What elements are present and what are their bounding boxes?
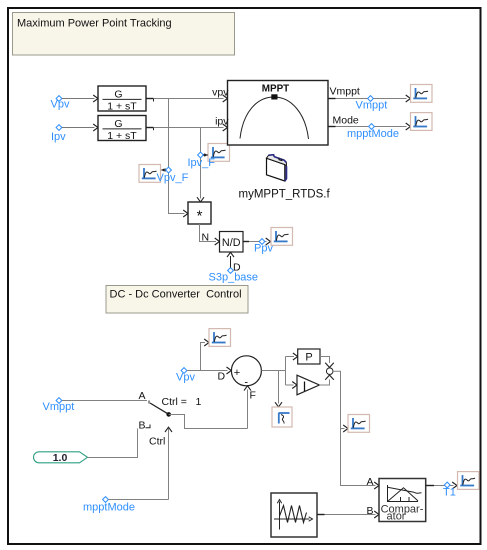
svg-text:Vpv: Vpv (176, 371, 195, 383)
node Vpv (lower) (176, 368, 195, 384)
wire I out to merge (319, 380, 329, 386)
monitor T1 (458, 472, 480, 490)
svg-text:myMPPT_RTDS.f: myMPPT_RTDS.f (239, 189, 331, 201)
svg-text:mpptMode: mpptMode (83, 501, 135, 513)
MPPT block U1 (212, 81, 360, 146)
node T1 (443, 482, 456, 499)
wire G2 to MPPT (ipv) (146, 124, 228, 131)
node Vmppt (356, 96, 388, 112)
svg-text:*: * (197, 208, 203, 225)
svg-text:Vmppt: Vmppt (330, 86, 360, 98)
wire P out to merge (320, 357, 330, 364)
lag block G2 (G/(1+sT)) (98, 116, 146, 142)
wire summer out to P/I tee (261, 370, 285, 372)
wire N/D out to Ppv monitor (243, 238, 271, 245)
wire triangle to comparator B (317, 505, 379, 518)
constant 1.0 (34, 452, 88, 464)
file icon myMPPT_RTDS.f (267, 155, 287, 181)
wire branch Vpv up to monitor (201, 339, 210, 371)
wire branch to monitor (341, 425, 349, 432)
svg-text:1 + sT: 1 + sT (107, 130, 137, 142)
svg-text:B: B (139, 420, 146, 432)
svg-text:G: G (114, 118, 122, 130)
summing junction (231, 356, 261, 389)
node S3p_base and D input to N/D (209, 252, 259, 283)
svg-text:P: P (305, 352, 312, 364)
svg-text:Vmppt: Vmppt (356, 99, 388, 111)
svg-text:S3p_base: S3p_base (209, 271, 259, 283)
monitor (PI output) (348, 415, 370, 433)
monitor Vmppt (411, 85, 433, 103)
wire Ipv to G2 (62, 124, 98, 131)
wire mpptMode to Ctrl (108, 499, 168, 501)
svg-text:Vpv: Vpv (51, 99, 70, 111)
svg-text:F: F (250, 389, 256, 401)
svg-text:Ctrl =: Ctrl = (162, 396, 187, 408)
node Ipv (input label) (51, 125, 66, 143)
svg-text:1 + sT: 1 + sT (107, 100, 137, 112)
switch (two position) (139, 396, 202, 432)
svg-text:B: B (367, 505, 374, 517)
svg-text:N: N (202, 232, 210, 244)
svg-text:mpptMode: mpptMode (347, 128, 399, 140)
wire F input to summer (244, 386, 256, 429)
svg-text:ator: ator (387, 511, 406, 523)
svg-text:I: I (303, 379, 307, 394)
merge junction node (326, 368, 333, 375)
svg-text:N/D: N/D (222, 237, 241, 249)
divider block N/D (220, 232, 244, 253)
lag block G1 (G/(1+sT)) (98, 86, 146, 112)
wire Vpv to summer (187, 367, 231, 383)
monitor mpptMode (411, 113, 433, 131)
monitor Vpv_F (139, 165, 189, 184)
wire branch ipv down to multiplier (197, 128, 204, 203)
svg-text:Maximum Power Point Tracking: Maximum Power Point Tracking (17, 18, 172, 30)
wire branch down to monitor (275, 371, 282, 408)
I block (integrator triangle) (297, 375, 319, 395)
svg-text:vpv: vpv (212, 87, 229, 99)
svg-text:A: A (139, 390, 146, 402)
svg-text:+: + (234, 367, 240, 379)
svg-text:T1: T1 (443, 487, 456, 499)
monitor Vpv (upper) (209, 329, 231, 347)
monitor Ipv_F (188, 144, 230, 169)
svg-text:Ipv_F: Ipv_F (188, 157, 216, 169)
wire G1 to MPPT (vpv) (146, 95, 228, 102)
svg-text:D: D (218, 371, 226, 383)
P block (298, 349, 320, 364)
svg-text:Mode: Mode (333, 114, 359, 126)
Ctrl arrow into switch (149, 427, 172, 499)
svg-text:A: A (367, 476, 374, 488)
svg-text:1.0: 1.0 (53, 452, 68, 464)
node Vmppt (lower) (43, 398, 75, 413)
wire Vpv to G1 (62, 95, 98, 102)
comparator block (379, 479, 426, 523)
tee vertical to P and I (285, 357, 287, 386)
wire switch out to F (169, 415, 248, 429)
svg-text:1: 1 (196, 396, 202, 408)
wire to P block (286, 353, 298, 360)
svg-text:Vpv_F: Vpv_F (157, 172, 189, 184)
wire Vmppt to switch A (62, 390, 149, 404)
svg-text:MPPT: MPPT (262, 84, 289, 95)
wire comparator out to T1 monitor (426, 482, 457, 489)
node Vpv (input label) (51, 96, 70, 111)
wire to I block (286, 382, 298, 389)
wire 1.0 to switch B (88, 429, 138, 458)
monitor Ppv (271, 228, 293, 246)
wire merge out, down to comparator A (333, 371, 376, 485)
wire MPPT Mode out to monitor (328, 123, 411, 130)
node mpptMode (347, 124, 399, 140)
svg-text:Ipv: Ipv (51, 131, 66, 143)
svg-text:Vmppt: Vmppt (43, 401, 75, 413)
wire branch vpv down to multiplier (169, 99, 189, 218)
wire MPPT Vmppt out to monitor (328, 95, 411, 102)
note box DC-Dc Converter Control (106, 286, 248, 314)
triangle wave generator (271, 493, 317, 537)
title note box (13, 13, 235, 56)
svg-text:G: G (114, 89, 122, 101)
svg-text:DC - Dc Converter Control: DC - Dc Converter Control (110, 289, 242, 301)
node Ppv (254, 239, 273, 255)
node mpptMode (lower) (83, 497, 135, 514)
monitor PWM (corner icon) (272, 407, 292, 427)
svg-text:Ctrl: Ctrl (149, 435, 165, 447)
svg-text:ipv: ipv (215, 115, 229, 127)
multiplier block (188, 202, 211, 225)
wire multiplier to N/D (200, 224, 220, 245)
